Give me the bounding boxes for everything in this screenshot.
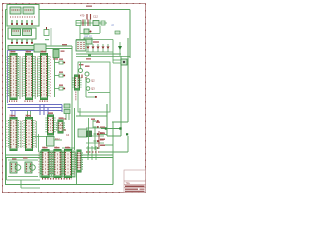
IC U4 bbox=[9, 118, 19, 151]
svg-text:R6: R6 bbox=[63, 129, 67, 132]
center bottom cluster bbox=[78, 108, 107, 155]
blue box around memory bbox=[8, 51, 35, 104]
transistor Q5 bbox=[85, 72, 89, 76]
svg-text:J2: J2 bbox=[111, 23, 114, 27]
wire left vertical bbox=[5, 10, 7, 185]
wire top bus bbox=[39, 9, 130, 11]
wire under diodes bbox=[86, 51, 113, 53]
wire band right segment bbox=[46, 45, 72, 47]
connector J0 top-left bbox=[7, 5, 39, 27]
red labels bbox=[9, 51, 70, 150]
resistor R1 bbox=[55, 59, 66, 65]
connector K1 bbox=[76, 40, 86, 51]
wire x51 pale bbox=[50, 28, 52, 46]
junction on bus bbox=[88, 54, 91, 56]
junction dots bbox=[126, 133, 128, 135]
IC U7 bbox=[57, 120, 65, 133]
wire vertical x121 bbox=[120, 56, 122, 136]
diode D5 bbox=[107, 44, 110, 52]
row C bottom pins bbox=[42, 178, 72, 180]
wire x54.5 vertical bbox=[54, 57, 56, 97]
wire right outer vertical bbox=[129, 10, 131, 59]
wire from box top bbox=[80, 62, 82, 69]
box U10 bbox=[34, 44, 46, 52]
svg-text:C4: C4 bbox=[66, 134, 70, 137]
wire y145 bbox=[101, 144, 113, 146]
tiny label below part bbox=[45, 39, 49, 40]
IC U3 bbox=[39, 54, 49, 100]
top cluster: regulator section bbox=[76, 14, 107, 40]
wire x86 bbox=[85, 78, 87, 97]
svg-text:pwr ctl: pwr ctl bbox=[84, 34, 92, 38]
copyright text top bbox=[86, 6, 92, 7]
part right small bbox=[115, 31, 120, 34]
svg-text:Q3: Q3 bbox=[91, 87, 95, 91]
wire corner y122 bbox=[112, 121, 128, 123]
pin number columns bbox=[7, 57, 75, 175]
diode D1 bbox=[87, 44, 90, 52]
wire y97 bbox=[86, 96, 95, 98]
bus bar left bbox=[8, 46, 40, 50]
IC U2 bbox=[24, 54, 34, 100]
vertical red label U13 bbox=[75, 92, 77, 102]
IC U13 bbox=[73, 75, 81, 90]
svg-text:R12: R12 bbox=[55, 138, 60, 141]
red labels above transistors bbox=[79, 64, 84, 65]
IC U8 bbox=[41, 150, 51, 178]
IC U6 bbox=[46, 115, 55, 135]
transistor Q4 bbox=[79, 69, 83, 73]
right wires bbox=[113, 59, 121, 61]
wires y136-148 bbox=[33, 136, 47, 138]
wire y92.5 bbox=[88, 92, 110, 94]
wire x76.5 bottom bbox=[76, 158, 78, 185]
light box above K1 bbox=[84, 38, 92, 44]
stub left bbox=[6, 9, 8, 11]
diode D4 bbox=[102, 44, 105, 52]
memory box bbox=[53, 50, 59, 58]
IC U9 bbox=[53, 150, 63, 178]
oscillator X2 bbox=[23, 157, 35, 173]
diode D3 bbox=[97, 44, 100, 52]
resistor R3 bbox=[55, 85, 66, 91]
wire mid bus y54 bbox=[76, 53, 121, 55]
sheet frame bbox=[3, 4, 146, 193]
row C striped background bbox=[40, 151, 75, 177]
caps cluster bbox=[86, 146, 99, 160]
wire x107 bbox=[106, 104, 108, 136]
outer analog box bbox=[78, 62, 110, 112]
title block bbox=[124, 170, 146, 193]
mid vertical x74.5 bbox=[74, 108, 76, 150]
svg-text:R7: R7 bbox=[100, 131, 104, 135]
transistor Q7 right bbox=[121, 59, 127, 65]
box under U6 bbox=[47, 137, 55, 147]
bottom-left wires bbox=[8, 159, 38, 161]
IC U12 bbox=[76, 150, 83, 172]
wire vertical x128 bbox=[127, 38, 129, 122]
wire y39.5 bbox=[76, 39, 113, 41]
strip inner text + labels bbox=[9, 51, 70, 176]
wire x113 upper bbox=[112, 122, 114, 157]
stubs from blue bus to row B strips bbox=[11, 111, 13, 118]
diode D6 right bbox=[118, 42, 122, 56]
wire y155 bbox=[6, 154, 114, 156]
small parts right of row B bbox=[64, 104, 70, 108]
connector J1 bbox=[8, 28, 36, 44]
wire y157.5 bbox=[6, 157, 114, 159]
transistor Q3 bbox=[86, 87, 90, 91]
label near K1 bbox=[93, 41, 99, 42]
svg-text:470: 470 bbox=[80, 14, 85, 18]
IC U1 bbox=[9, 54, 19, 100]
wire bottom bbox=[5, 184, 113, 186]
diode D2 bbox=[92, 44, 95, 52]
wire mid bus y56 bbox=[76, 56, 130, 58]
wire corner y136 bbox=[107, 135, 121, 137]
wire right of bottom box bbox=[112, 157, 114, 185]
svg-text:C12: C12 bbox=[93, 15, 98, 19]
IC U11 bbox=[63, 150, 73, 178]
resistor R2 bbox=[55, 72, 66, 78]
blue bus lines bbox=[8, 105, 63, 116]
wire y152 right bbox=[99, 151, 128, 153]
transistor Q2 bbox=[86, 79, 90, 83]
svg-text:Q2: Q2 bbox=[91, 79, 95, 83]
wire vertical x72 bbox=[71, 46, 73, 150]
IC U5 bbox=[24, 118, 34, 151]
labels near memory box bbox=[61, 51, 65, 52]
wire y128.5 bbox=[101, 128, 121, 130]
oscillator X1 bbox=[10, 158, 21, 173]
wire y116 bbox=[76, 115, 107, 117]
svg-text:R8: R8 bbox=[100, 138, 104, 142]
part near badge bbox=[44, 27, 49, 36]
